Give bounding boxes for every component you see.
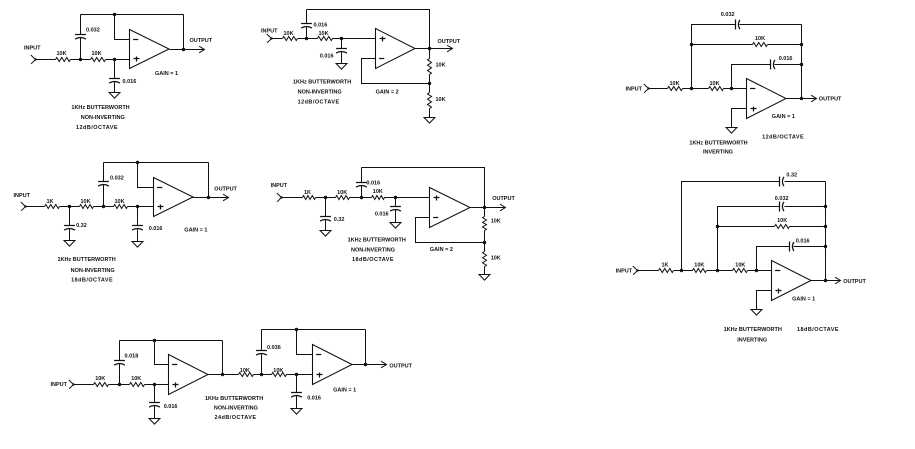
ground below R6 [424, 118, 435, 124]
wire R25 to node E7 [287, 374, 297, 376]
wire 10K feedback level left [718, 226, 775, 228]
wire E7 to non-inverting input stage2 [297, 374, 313, 376]
svg-text:1KHz BUTTERWORTH: 1KHz BUTTERWORTH [71, 105, 129, 111]
wire A3 to R9 [692, 88, 709, 90]
op-amp U1 [130, 30, 170, 69]
resistor R24 10K [239, 368, 254, 377]
wire A2 to R4 [307, 38, 318, 40]
node D5 junction [394, 196, 397, 199]
svg-text:GAIN = 1: GAIN = 1 [184, 228, 207, 234]
capacitor C4 0.016 to ground [320, 39, 347, 64]
svg-text:1KHz BUTTERWORTH: 1KHz BUTTERWORTH [205, 396, 263, 402]
node B2 junction [340, 37, 343, 40]
svg-text:10K: 10K [284, 31, 294, 37]
svg-text:18dB/OCTAVE: 18dB/OCTAVE [797, 327, 839, 333]
node top feedback c4 [136, 161, 139, 164]
svg-text:0.016: 0.016 [320, 54, 334, 60]
wire output up feedback c6 [825, 182, 827, 281]
svg-text:18dB/OCTAVE: 18dB/OCTAVE [352, 257, 394, 263]
input arrow IN2 with INPUT label [261, 29, 278, 43]
resistor R25 10K [272, 368, 287, 377]
svg-text:0.032: 0.032 [86, 28, 100, 34]
svg-text:0.016: 0.016 [307, 396, 321, 402]
capacitor C6 0.016 feedback [771, 56, 793, 70]
wire input to R10 [26, 206, 45, 208]
wire feedback resistor level left [692, 44, 753, 46]
wire D4 to non-inverting input [138, 206, 154, 208]
wire 10K feedback level right [790, 226, 826, 228]
node D6 junction [755, 269, 758, 272]
output wire and arrow with OUTPUT label c5 [471, 196, 516, 211]
ground below C10 [320, 231, 331, 237]
wire R9 to node B3 [724, 88, 732, 90]
svg-text:0.016: 0.016 [779, 56, 793, 62]
wire output up to top feedback stage2 [365, 330, 367, 365]
wire feedback to inverting input stage2 [297, 330, 313, 355]
wire B1 to non-inverting input [115, 59, 130, 61]
wire stage1 output up to feedback [222, 341, 224, 375]
wire R13 to node A5 [316, 197, 326, 199]
node A7 junction [118, 383, 121, 386]
wire C6 feedback left [732, 65, 771, 89]
wire top feedback c5 [362, 168, 485, 208]
svg-text:10K: 10K [95, 376, 105, 382]
resistor R12 10K [114, 199, 128, 209]
output wire and arrow with OUTPUT label [170, 38, 213, 53]
wire R4 to node B2 [333, 38, 342, 40]
wire R11 to node B4 [94, 206, 104, 208]
svg-text:10K: 10K [670, 81, 680, 87]
wire top feedback stage2 [262, 329, 366, 331]
svg-text:NON-INVERTING: NON-INVERTING [214, 406, 258, 412]
svg-text:1KHz BUTTERWORTH: 1KHz BUTTERWORTH [348, 237, 406, 243]
capacitor C15 0.016 feedback [790, 239, 810, 252]
node feedback left [690, 43, 693, 46]
resistor R21 10K [733, 262, 748, 272]
resistor R3 10K [283, 31, 298, 41]
wire output to R16 [484, 208, 486, 217]
wire D7 to R25 [262, 374, 272, 376]
svg-text:10K: 10K [777, 218, 787, 224]
wire input to R3 [272, 38, 283, 40]
resistor R16 10K divider [483, 217, 501, 231]
ground below C19 [291, 409, 302, 415]
wire R21 to node D6 [748, 270, 757, 272]
ground at U3 plus input [726, 128, 737, 134]
input arrow IN1 with INPUT label [24, 46, 41, 64]
op-amp U2 [376, 29, 416, 69]
svg-text:GAIN = 1: GAIN = 1 [333, 387, 356, 393]
node A6 junction [680, 269, 683, 272]
svg-text:INVERTING: INVERTING [737, 337, 767, 343]
svg-text:10K: 10K [57, 51, 67, 57]
node feedback 0.032 right [824, 205, 827, 208]
node output junction [182, 48, 185, 51]
node output junction c6 [824, 279, 827, 282]
wire R19 to node B6 [707, 270, 718, 272]
svg-text:INPUT: INPUT [271, 183, 288, 189]
output wire and arrow with OUTPUT label c3 [786, 95, 843, 102]
svg-text:10K: 10K [115, 199, 125, 205]
svg-text:24dB/OCTAVE: 24dB/OCTAVE [215, 415, 257, 421]
wire R17 to ground [484, 267, 486, 275]
ground below C9 [132, 242, 143, 248]
svg-text:10K: 10K [337, 190, 347, 196]
node A4 junction [68, 205, 71, 208]
input arrow IN4 with INPUT label [14, 193, 31, 211]
capacitor C7 0.32 to ground [64, 207, 87, 241]
node output junction c4 [207, 196, 210, 199]
wire A7 to R23 [120, 384, 130, 386]
wire R23 to node B7 [145, 384, 155, 386]
resistor R13 1K [303, 190, 316, 200]
svg-text:INVERTING: INVERTING [703, 150, 733, 156]
svg-text:0.032: 0.032 [775, 196, 789, 202]
wire B3 to inverting input [732, 88, 747, 90]
capacitor C14 0.032 feedback [775, 196, 789, 212]
wire C13 to right vertical [785, 181, 826, 183]
node divider junction c5 [483, 241, 486, 244]
wire A3 up to feedback levels [692, 25, 736, 89]
ground below R17 [479, 275, 490, 281]
svg-text:NON-INVERTING: NON-INVERTING [298, 90, 342, 96]
node B5 junction [360, 196, 363, 199]
svg-text:0.016: 0.016 [375, 212, 389, 218]
wire feedback to inverting input c4 [138, 163, 154, 188]
resistor R23 10K [130, 376, 145, 386]
svg-text:10K: 10K [373, 189, 383, 195]
resistor R1 10K [56, 51, 71, 62]
wire R12 to node D4 [128, 206, 138, 208]
wire R16 to node [484, 231, 486, 243]
resistor R8 10K feedback [753, 36, 768, 47]
node B1 junction [113, 58, 116, 61]
node A2 junction [305, 37, 308, 40]
wire top feedback [81, 14, 184, 16]
svg-text:10K: 10K [319, 31, 329, 37]
output wire and arrow with OUTPUT label c6 [811, 277, 867, 285]
capacitor C9 0.016 to ground [132, 207, 162, 242]
capacitor C1 0.032 feedback [75, 15, 100, 60]
wire B5 to R15 [362, 197, 372, 199]
wire B6 up to 0.032 feedback [718, 207, 780, 271]
wire R2 to node B1 [106, 59, 115, 61]
capacitor C16 0.018 feedback [114, 341, 138, 385]
ground below C4 [336, 64, 347, 70]
wire R24 to node D7 [254, 374, 262, 376]
svg-text:0.016: 0.016 [366, 181, 380, 187]
node stage1 output junction [221, 373, 224, 376]
svg-text:NON-INVERTING: NON-INVERTING [71, 268, 115, 274]
wire C15 to right vertical [794, 246, 826, 248]
svg-text:10K: 10K [491, 256, 501, 262]
svg-text:0.32: 0.32 [76, 223, 87, 229]
wire A6 to R19 [682, 270, 693, 272]
wire top feedback stage1 [120, 340, 223, 342]
svg-text:10K: 10K [131, 376, 141, 382]
node B6 junction [716, 269, 719, 272]
wire top feedback c2 [307, 10, 430, 49]
node D4 junction [136, 205, 139, 208]
node feedback 0.016 right [824, 245, 827, 248]
ground below C12 [390, 223, 401, 229]
wire output up feedback [801, 25, 803, 99]
op-amp U4 [154, 178, 194, 217]
svg-text:1KHz BUTTERWORTH: 1KHz BUTTERWORTH [58, 257, 116, 263]
resistor R5 10K divider [428, 59, 446, 75]
wire input to R13 [282, 197, 303, 199]
resistor R20 10K feedback [775, 218, 790, 229]
ground at U6 plus input [751, 310, 762, 316]
ground below C17 [149, 419, 160, 425]
svg-text:0.016: 0.016 [796, 239, 810, 245]
svg-text:1KHz BUTTERWORTH: 1KHz BUTTERWORTH [689, 140, 747, 146]
node C6 right [800, 63, 803, 66]
wire C5 to right vertical [740, 24, 802, 26]
wire feedback to inverting input [115, 15, 130, 40]
svg-text:18dB/OCTAVE: 18dB/OCTAVE [71, 277, 113, 283]
svg-text:10K: 10K [436, 63, 446, 69]
wire feedback resistor level right [768, 44, 802, 46]
svg-text:0.036: 0.036 [267, 345, 281, 351]
resistor R10 1K [45, 199, 60, 209]
node output junction c5 [483, 206, 486, 209]
node on top feedback wire [113, 13, 116, 16]
svg-text:1KHz BUTTERWORTH: 1KHz BUTTERWORTH [724, 327, 782, 333]
wire input to R22 [74, 384, 94, 386]
wire D6 up to 0.016 feedback [757, 247, 790, 271]
wire B6 to R21 [718, 270, 733, 272]
input arrow IN7 with INPUT label [51, 380, 75, 389]
svg-text:OUTPUT: OUTPUT [214, 186, 237, 192]
input arrow IN6 with INPUT label [616, 266, 639, 275]
wire R7 to node A3 [683, 88, 692, 90]
capacitor C13 0.32 feedback [780, 173, 798, 187]
capacitor C18 0.036 feedback [256, 330, 281, 375]
svg-text:NON-INVERTING: NON-INVERTING [81, 115, 125, 121]
svg-text:GAIN = 2: GAIN = 2 [376, 90, 399, 96]
svg-text:1KHz BUTTERWORTH: 1KHz BUTTERWORTH [293, 80, 351, 86]
wire A4 to R11 [70, 206, 80, 208]
wire B4 to R12 [104, 206, 114, 208]
svg-text:1K: 1K [304, 190, 311, 196]
svg-text:10K: 10K [92, 51, 102, 57]
resistor R6 10K divider [428, 93, 446, 109]
wire feedback to inverting input stage1 [155, 341, 169, 365]
capacitor C3 0.016 feedback [301, 10, 327, 39]
wire output up to top feedback [183, 15, 185, 50]
svg-text:10K: 10K [710, 81, 720, 87]
svg-text:10K: 10K [694, 262, 704, 268]
node E7 junction [295, 373, 298, 376]
svg-text:0.32: 0.32 [334, 217, 345, 223]
wire output up to top feedback c4 [208, 163, 210, 198]
wire C14 to right vertical [785, 206, 826, 208]
node A5 junction [324, 196, 327, 199]
wire A1 to R2 [81, 59, 91, 61]
node top feedback stage2 [295, 328, 298, 331]
input arrow IN3 with INPUT label [626, 84, 650, 93]
svg-text:10K: 10K [240, 368, 250, 374]
resistor R9 10K [709, 81, 724, 91]
wire inverting input feedback loop c5 [416, 218, 485, 243]
svg-text:1K: 1K [662, 262, 669, 268]
svg-text:OUTPUT: OUTPUT [492, 196, 515, 202]
ground below C7 [64, 241, 75, 247]
svg-text:INPUT: INPUT [24, 46, 41, 52]
wire top feedback c4 [104, 162, 209, 164]
capacitor C2 0.016 to ground [109, 60, 136, 93]
capacitor C17 0.016 to ground [149, 385, 177, 419]
wire R14 to node B5 [350, 197, 362, 199]
resistor R14 10K [336, 190, 350, 200]
resistor R4 10K [318, 31, 333, 41]
node B4 junction [102, 205, 105, 208]
wire A6 up to 0.32 feedback [682, 182, 780, 271]
wire non-inverting input to ground c6 [757, 291, 772, 310]
node output junction c7 [364, 363, 367, 366]
op-amp U7 [169, 355, 209, 395]
wire R1 to node A1 [71, 59, 81, 61]
wire node to R17 [484, 243, 486, 252]
resistor R2 10K [91, 51, 106, 62]
resistor R15 10K [372, 189, 385, 200]
resistor R19 10K [693, 262, 707, 272]
node B7 junction [153, 383, 156, 386]
node D7 junction [260, 373, 263, 376]
node feedback right [800, 43, 803, 46]
svg-text:OUTPUT: OUTPUT [190, 38, 213, 44]
svg-text:INPUT: INPUT [626, 86, 643, 92]
op-amp U6 [772, 261, 812, 301]
wire non-inverting input to ground [732, 109, 747, 128]
resistor R22 10K [94, 376, 109, 386]
svg-text:OUTPUT: OUTPUT [438, 39, 461, 45]
svg-text:INPUT: INPUT [616, 269, 633, 275]
svg-text:12dB/OCTAVE: 12dB/OCTAVE [76, 125, 118, 131]
wire D6 to inverting input [757, 270, 772, 272]
wire node to R6 [429, 84, 431, 93]
svg-text:INPUT: INPUT [261, 29, 278, 35]
svg-text:INPUT: INPUT [51, 382, 68, 388]
resistor R18 1K [659, 262, 674, 272]
node 10K feedback right [824, 225, 827, 228]
svg-text:OUTPUT: OUTPUT [819, 97, 842, 103]
wire R18 to node A6 [674, 270, 682, 272]
svg-text:GAIN = 2: GAIN = 2 [430, 247, 453, 253]
svg-text:10K: 10K [735, 262, 745, 268]
svg-text:NON-INVERTING: NON-INVERTING [351, 248, 395, 254]
resistor R17 10K divider [483, 252, 501, 267]
svg-text:10K: 10K [755, 36, 765, 42]
resistor R7 10K [668, 81, 683, 91]
wire C6 feedback right [775, 64, 802, 66]
svg-text:10K: 10K [491, 218, 501, 224]
wire R5 to node C2n [429, 75, 431, 84]
svg-text:0.016: 0.016 [314, 23, 328, 29]
resistor R11 10K [80, 199, 94, 209]
capacitor C19 0.016 to ground [291, 375, 321, 409]
output wire and arrow with OUTPUT label c4 [193, 186, 238, 200]
svg-text:OUTPUT: OUTPUT [389, 363, 412, 369]
capacitor C10 0.32 to ground [320, 198, 344, 231]
wire input to R18 [638, 270, 659, 272]
wire stage1 output to interstage [208, 374, 239, 376]
op-amp U5 [430, 188, 471, 228]
ground below C2 [109, 93, 120, 99]
output wire and arrow with OUTPUT label c2 [416, 39, 461, 52]
wire output to R5 [429, 49, 431, 59]
svg-text:GAIN = 1: GAIN = 1 [792, 296, 815, 302]
op-amp U3 [747, 79, 787, 119]
capacitor C11 0.016 feedback [356, 168, 380, 198]
wire R15 to node D5 [385, 197, 396, 199]
svg-text:10K: 10K [273, 368, 283, 374]
node B3 junction [730, 87, 733, 90]
wire R10 to node A4 [60, 206, 70, 208]
wire input to R7 [649, 88, 668, 90]
svg-text:GAIN = 1: GAIN = 1 [772, 114, 795, 120]
node top feedback stage1 [153, 339, 156, 342]
input arrow IN5 with INPUT label [271, 183, 288, 202]
wire D5 to non-inverting input [396, 197, 430, 199]
capacitor C5 0.032 feedback [721, 12, 740, 29]
capacitor C12 0.016 to ground [375, 198, 401, 223]
svg-text:1K: 1K [47, 199, 54, 205]
wire B2 to non-inverting input [342, 38, 376, 40]
wire B7 to non-inverting input stage1 [155, 384, 169, 386]
capacitor C8 0.032 feedback [98, 163, 124, 207]
op-amp U8 [313, 345, 353, 385]
svg-text:0.016: 0.016 [123, 79, 137, 85]
svg-text:0.016: 0.016 [149, 226, 163, 232]
svg-text:12dB/OCTAVE: 12dB/OCTAVE [762, 134, 804, 140]
svg-text:10K: 10K [81, 199, 91, 205]
node output junction c2 [428, 47, 431, 50]
wire A5 to R14 [326, 197, 336, 199]
node A1 junction [79, 58, 82, 61]
wire R22 to node A7 [109, 384, 120, 386]
node A3 junction [690, 87, 693, 90]
svg-text:0.016: 0.016 [164, 404, 178, 410]
svg-text:GAIN = 1: GAIN = 1 [155, 71, 178, 77]
svg-text:INPUT: INPUT [14, 193, 31, 199]
svg-text:10K: 10K [436, 97, 446, 103]
svg-text:12dB/OCTAVE: 12dB/OCTAVE [298, 100, 340, 106]
wire input to R1 [36, 59, 56, 61]
output wire and arrow with OUTPUT label c7 [353, 361, 413, 369]
wire R6 to ground [429, 109, 431, 118]
node output junction c3 [800, 97, 803, 100]
node 10K feedback left [716, 225, 719, 228]
svg-text:0.32: 0.32 [786, 173, 797, 179]
wire inverting input feedback loop [362, 59, 430, 84]
wire R3 to node A2 [298, 38, 307, 40]
svg-text:OUTPUT: OUTPUT [843, 279, 866, 285]
svg-text:0.032: 0.032 [110, 176, 124, 182]
node divider junction c2 [428, 82, 431, 85]
svg-text:0.018: 0.018 [125, 354, 139, 360]
svg-text:0.032: 0.032 [721, 12, 735, 18]
